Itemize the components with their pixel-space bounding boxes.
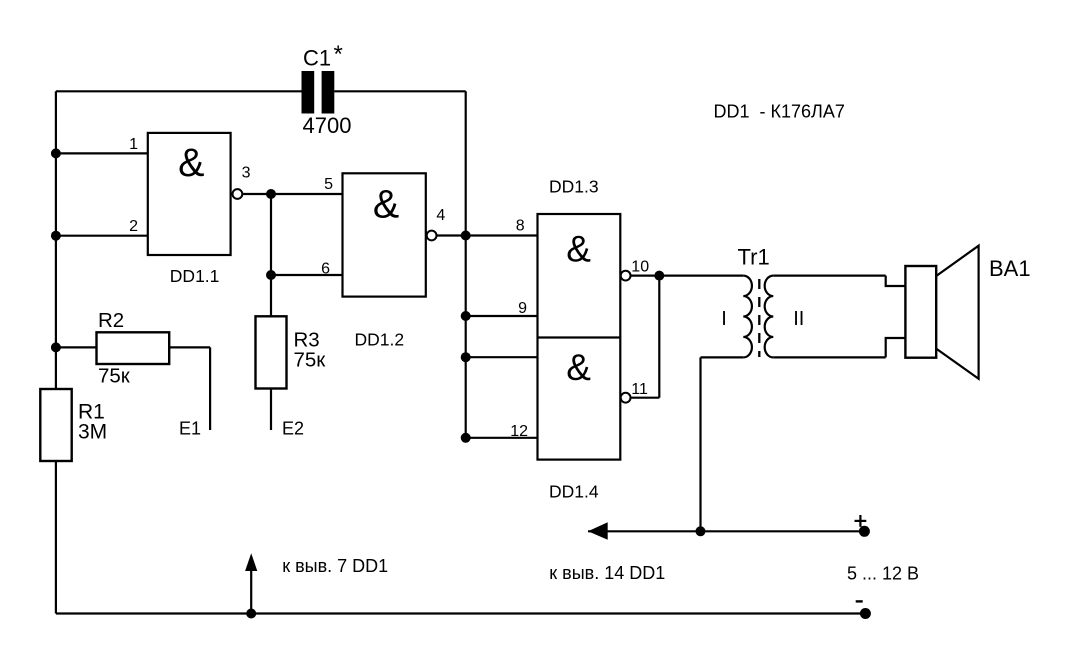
svg-text:II: II bbox=[793, 308, 804, 330]
svg-text:75к: 75к bbox=[98, 365, 131, 388]
svg-text:E2: E2 bbox=[282, 419, 304, 439]
svg-text:DD1.4: DD1.4 bbox=[549, 482, 599, 502]
svg-text:к выв. 14 DD1: к выв. 14 DD1 bbox=[549, 563, 665, 583]
svg-text:&: & bbox=[566, 347, 591, 388]
svg-text:BA1: BA1 bbox=[989, 256, 1031, 281]
svg-text:R2: R2 bbox=[98, 309, 124, 332]
svg-text:DD1.2: DD1.2 bbox=[355, 330, 405, 350]
svg-text:9: 9 bbox=[518, 300, 527, 317]
svg-text:DD1.1: DD1.1 bbox=[170, 266, 220, 286]
svg-text:1: 1 bbox=[129, 136, 138, 153]
svg-text:Tr1: Tr1 bbox=[738, 245, 770, 270]
svg-text:6: 6 bbox=[321, 261, 330, 278]
svg-text:11: 11 bbox=[631, 381, 648, 398]
svg-text:&: & bbox=[178, 141, 204, 185]
svg-text:DD1.3: DD1.3 bbox=[549, 177, 599, 197]
svg-text:5 ... 12 В: 5 ... 12 В bbox=[847, 564, 919, 584]
svg-text:12: 12 bbox=[510, 423, 528, 440]
svg-text:8: 8 bbox=[516, 218, 525, 235]
svg-text:DD1 - К176ЛА7: DD1 - К176ЛА7 bbox=[714, 102, 845, 122]
svg-text:5: 5 bbox=[324, 176, 333, 193]
svg-text:2: 2 bbox=[129, 218, 138, 235]
svg-text:&: & bbox=[566, 228, 591, 269]
svg-text:C1: C1 bbox=[303, 46, 331, 71]
svg-text:&: & bbox=[373, 183, 399, 227]
svg-text:10: 10 bbox=[631, 259, 649, 276]
svg-text:4700: 4700 bbox=[303, 113, 352, 138]
svg-text:3М: 3М bbox=[78, 421, 107, 444]
svg-text:I: I bbox=[721, 308, 727, 330]
svg-text:*: * bbox=[334, 41, 343, 68]
svg-text:E1: E1 bbox=[179, 419, 201, 439]
svg-text:75к: 75к bbox=[294, 349, 327, 372]
svg-text:4: 4 bbox=[436, 207, 445, 224]
svg-text:3: 3 bbox=[242, 164, 251, 181]
svg-text:к выв. 7 DD1: к выв. 7 DD1 bbox=[282, 556, 388, 576]
